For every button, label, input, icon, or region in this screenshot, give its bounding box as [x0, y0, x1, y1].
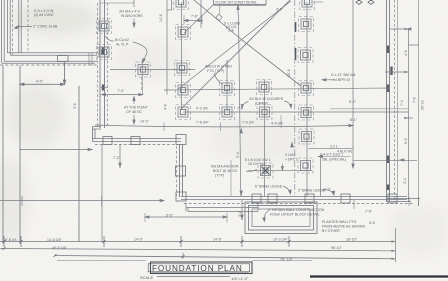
svg-text:7'-0": 7'-0"	[118, 89, 126, 93]
svg-text:4'-9 3/4: 4'-9 3/4	[271, 122, 283, 126]
title text	[140, 264, 249, 281]
footing (306,88)	[299, 81, 314, 96]
footing (183,112)	[176, 105, 191, 120]
svg-text:4'-6: 4'-6	[164, 104, 168, 110]
svg-text:9'-8 3/4: 9'-8 3/4	[5, 238, 17, 242]
leader 6in brng ledge	[283, 186, 291, 194]
footing (264,87)	[257, 80, 272, 95]
svg-text:5'-6: 5'-6	[369, 221, 375, 225]
building bottom wall	[181, 194, 413, 204]
footing (183,90)	[176, 83, 191, 98]
right side dim ticks	[385, 29, 419, 160]
svg-text:BOLT @ 48 OC: BOLT @ 48 OC	[213, 169, 238, 173]
footing (227,88)	[220, 81, 235, 96]
diagonal braces	[178, 0, 301, 110]
top wall hatch marks	[295, 22, 297, 60]
svg-text:PLANTER WALL FTG: PLANTER WALL FTG	[322, 220, 357, 224]
footing (306,24)	[299, 17, 314, 32]
bottom dim row 1 y=241.5	[0, 236, 396, 247]
rotated texts	[73, 14, 425, 217]
planter box	[245, 202, 317, 234]
arrow down x134	[133, 0, 135, 7]
svg-text:4'-6: 4'-6	[404, 50, 408, 56]
svg-text:(DRAW): (DRAW)	[255, 102, 268, 106]
centerline x=295	[294, 0, 296, 196]
svg-text:14'-6": 14'-6"	[213, 238, 223, 242]
arrows on dim y84 done; arrows y95.5	[102, 93, 143, 95]
svg-text:4'-0": 4'-0"	[36, 80, 44, 84]
svg-text:7'-4: 7'-4	[400, 100, 404, 106]
svg-text:3'-4: 3'-4	[403, 178, 407, 184]
footing (305.5,55)	[298, 48, 313, 63]
footing (305.5,165.5)	[298, 158, 313, 173]
main building left wall	[93, 0, 108, 142]
annotation texts	[5, 8, 375, 262]
west wall of south wing	[176, 144, 187, 201]
arrow down x242	[241, 215, 243, 219]
svg-text:(2) #4 CONT: (2) #4 CONT	[34, 13, 55, 17]
bottom dim row 3 y=255.5	[55, 256, 396, 259]
svg-text:W ANCHORS: W ANCHORS	[121, 14, 143, 18]
interior grid verticals	[102, 0, 354, 242]
svg-text:FOLW LATEST BLOCK DETAIL: FOLW LATEST BLOCK DETAIL	[270, 213, 320, 217]
right tick arrows	[405, 28, 409, 119]
3/4 blk left leader	[242, 102, 249, 108]
svg-text:3 2 1: 3 2 1	[330, 145, 338, 149]
footings	[97, 0, 315, 178]
svg-text:6" RETAIN WALL CONSTRUCTION: 6" RETAIN WALL CONSTRUCTION	[268, 208, 325, 212]
svg-text:FOUNDATION PLAN: FOUNDATION PLAN	[152, 264, 243, 273]
leader 2in brng ledge	[322, 190, 334, 195]
svg-text:28 10+ 4x2: 28 10+ 4x2	[248, 162, 265, 166]
arrow right on y200.6	[160, 199, 164, 201]
footing (182,68)	[175, 61, 190, 76]
box label text	[216, 1, 257, 5]
svg-text:49'-6 3/4": 49'-6 3/4"	[52, 246, 68, 250]
svg-text:FROM ABOVE AS SHOWN: FROM ABOVE AS SHOWN	[322, 225, 365, 229]
right wall hatch blocks	[388, 46, 392, 191]
svg-text:10'-0 3/4": 10'-0 3/4"	[273, 238, 289, 242]
slash ticks on bottom dims	[3, 240, 396, 260]
right side dim verticals	[396, 0, 419, 262]
svg-text:4 10x2: 4 10x2	[285, 153, 296, 157]
pilaster on wing wall	[58, 56, 69, 62]
svg-text:G x 12" BM 4x4: G x 12" BM 4x4	[331, 73, 355, 77]
svg-text:36'-10: 36'-10	[421, 100, 425, 110]
svg-text:FLOOR JST CONST DETAIL: FLOOR JST CONST DETAIL	[216, 1, 257, 5]
scale line	[57, 261, 312, 277]
svg-text:(TYP): (TYP)	[215, 174, 224, 178]
top step detail at x~167	[167, 0, 172, 95]
svg-text:7'-6": 7'-6"	[191, 15, 199, 19]
svg-text:5/8 DIA ANCHOR: 5/8 DIA ANCHOR	[211, 165, 239, 169]
svg-text:+ DPL 2: + DPL 2	[285, 158, 298, 162]
3/4 blk leader	[284, 101, 291, 107]
leader Gx12 arrow left	[322, 79, 334, 81]
arrow down x120	[119, 163, 121, 167]
bottom-left wall of building	[93, 135, 187, 145]
svg-text:16'-10": 16'-10"	[346, 238, 358, 242]
arrow left on y29 right	[407, 28, 411, 30]
arrow up x238	[237, 6, 239, 15]
left wall hatch blocks	[102, 48, 104, 91]
footing (143,69.5)	[136, 62, 151, 77]
svg-text:SCALE: SCALE	[140, 275, 153, 280]
footing (227,112)	[220, 105, 235, 120]
footing (181,2)	[174, 0, 189, 10]
svg-text:9'-2 3/4: 9'-2 3/4	[196, 107, 208, 111]
svg-text:4'-6": 4'-6"	[276, 8, 284, 12]
bottom-left dim line y=205.5	[0, 196, 164, 206]
arrow on y149.5	[88, 148, 92, 150]
building right wall	[354, 0, 420, 209]
leader: 2in conc slab	[15, 26, 33, 29]
footing (104,52)	[97, 45, 112, 60]
svg-text:7'-6: 7'-6	[413, 97, 417, 103]
svg-text:2" BRNG LEDGE: 2" BRNG LEDGE	[298, 189, 326, 193]
svg-text:16'-6: 16'-6	[287, 69, 291, 77]
dark bottom-right line	[310, 275, 448, 277]
svg-text:7'-0 3/4: 7'-0 3/4	[242, 121, 254, 125]
top boxed label	[214, 0, 267, 5]
svg-text:7'-2": 7'-2"	[113, 156, 121, 160]
svg-text:2BL (SPECIAL): 2BL (SPECIAL)	[322, 158, 346, 162]
svg-text:1/4"=1'-0": 1/4"=1'-0"	[231, 276, 249, 281]
svg-text:7'-8 3/4": 7'-8 3/4"	[196, 121, 210, 125]
footing (264.5,112)	[257, 105, 272, 120]
svg-text:8'-2": 8'-2"	[349, 100, 357, 104]
svg-text:14'-0": 14'-0"	[134, 238, 144, 242]
svg-text:B=CA #2: B=CA #2	[115, 38, 129, 42]
diamonds top right	[356, 0, 374, 4]
footing (265.5,170.5)	[258, 163, 273, 178]
arrow on y160	[400, 159, 404, 161]
svg-text:2" CONC SLAB: 2" CONC SLAB	[33, 25, 58, 29]
svg-text:AT THE POINT: AT THE POINT	[124, 106, 149, 110]
dim 4'-0 left	[20, 53, 92, 242]
top-left wing wall verticals	[2, 0, 28, 63]
svg-text:3/4 DIA x 4'-0: 3/4 DIA x 4'-0	[119, 10, 140, 14]
svg-text:#4 BPR 4X: #4 BPR 4X	[333, 78, 351, 82]
footing (306.5,136.5)	[299, 129, 314, 144]
interior vertical dims	[120, 0, 281, 220]
title box	[148, 262, 252, 274]
svg-text:3/4 BLK W CLEARER: 3/4 BLK W CLEARER	[249, 97, 284, 101]
bottom dim row 2 y=248.5	[0, 249, 396, 251]
svg-text:96'-10": 96'-10"	[331, 246, 343, 250]
svg-text:14'-2": 14'-2"	[140, 120, 150, 124]
svg-text:2x6: 2x6	[228, 29, 234, 33]
leader W8x13 to footing	[214, 73, 222, 84]
svg-text:W8x13 W 6" MIN: W8x13 W 6" MIN	[205, 65, 232, 69]
footing (307,2)	[300, 0, 315, 10]
interior horizontal grid/dim lines	[20, 2, 408, 171]
footing (306,112.5)	[299, 105, 314, 120]
leader 5/8 anchor	[246, 170, 257, 172]
stoop steps bottom-left of wall	[186, 204, 258, 212]
svg-text:BY OTHER: BY OTHER	[322, 229, 340, 233]
top-left wing wall horizontals	[0, 53, 97, 65]
svg-text:3'-6: 3'-6	[73, 103, 77, 109]
footing (104,26)	[97, 19, 112, 34]
planter inner leader	[264, 211, 268, 221]
svg-text:8'-1": 8'-1"	[350, 118, 358, 122]
arrows on x236.5 vdim	[240, 129, 242, 195]
svg-text:6" BRNG LEDGE: 6" BRNG LEDGE	[255, 185, 283, 189]
svg-text:4 BLK WL: 4 BLK WL	[337, 150, 353, 154]
leaders and arrows	[88, 0, 411, 223]
svg-text:FTG (TYP): FTG (TYP)	[207, 69, 224, 73]
svg-text:7'-6": 7'-6"	[365, 210, 373, 214]
svg-text:OF 48 OC: OF 48 OC	[126, 110, 142, 114]
svg-text:14'-6: 14'-6	[159, 14, 163, 22]
vdim x134	[133, 97, 135, 125]
svg-text:AL TL P: AL TL P	[116, 43, 129, 47]
svg-text:78'- 1/4": 78'- 1/4"	[280, 258, 294, 262]
footing (183,32)	[176, 25, 191, 40]
left lower verticals	[3, 66, 20, 244]
leader from footing 104,26	[105, 36, 114, 41]
svg-text:5'-6: 5'-6	[404, 138, 408, 144]
svg-text:14'-6 3/4": 14'-6 3/4"	[47, 238, 63, 242]
dim 5-0 stoop line	[145, 216, 227, 218]
svg-text:5'-4: 5'-4	[236, 152, 240, 158]
